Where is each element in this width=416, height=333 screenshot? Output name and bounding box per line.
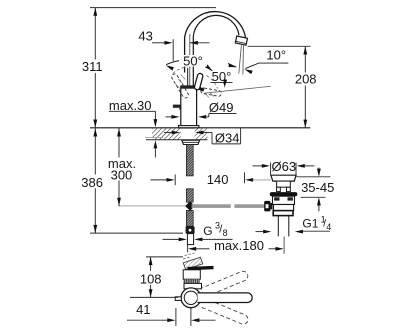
riser left edge [187,68,189,87]
drain tailpiece pipe [278,216,289,237]
swivel circle inner [184,291,197,304]
drain centerline [283,237,285,254]
rod clamp [264,201,270,212]
top extension line (spout top) [90,7,216,9]
deck top line [90,127,310,129]
50-deg arc (lever tilt) [166,60,212,70]
deck hatched section left of hole [152,128,181,139]
svg-text:Ø34: Ø34 [215,131,240,146]
311/386 vertical dimension line [94,8,96,234]
svg-text:4: 4 [326,222,331,232]
dashed swing arc right [207,76,218,89]
aerator [235,36,247,45]
G3/8 nut [186,226,195,233]
dashed lever (down-right position) [201,88,222,97]
lever-down axis line [204,86,271,93]
dashed lever (left open position) [171,73,190,99]
solid spout bar [198,293,253,303]
circle left protrusion [175,297,181,301]
threaded rod segment 3 [186,210,193,226]
deck hatched section right of hole [195,128,208,139]
dashed swivel spout up [199,270,249,298]
top-view dark band [184,279,200,283]
svg-text:G: G [203,224,212,238]
lever hub [194,86,204,90]
svg-text:300: 300 [111,167,133,182]
mounting washer [182,140,200,144]
svg-text:108: 108 [140,271,162,286]
svg-text:35-45: 35-45 [301,180,334,195]
svg-text:140: 140 [207,172,229,187]
dimension text 311 [81,60,105,74]
drain stem [277,181,291,187]
supply thread pipe [187,234,193,245]
svg-text:8: 8 [223,228,228,238]
rod node joint [185,201,195,210]
drain lower band [274,205,294,211]
left knob [173,105,181,108]
drain gasket flange [270,192,298,196]
208 dimension line [304,46,306,128]
spout outlet extension line [248,45,311,47]
threaded shank segment 2 [186,189,193,202]
threaded shank segment 1 [186,145,193,176]
10-deg arc arrow [228,63,236,67]
deck bottom line [146,139,208,141]
body top cap band [181,86,197,89]
svg-text:43: 43 [138,29,152,44]
drain plug top [271,175,296,181]
top-view body block [183,270,200,279]
svg-text:50°: 50° [212,69,232,84]
pop-up rod thick gray bar [192,204,231,208]
svg-text:208: 208 [295,72,317,87]
spout inner arc and riser right edge [193,15,239,87]
dimension text 386 [81,175,105,189]
body cylinder [181,86,197,126]
svg-text:Ø63: Ø63 [272,159,297,174]
drain stem side tabs [277,187,281,191]
svg-text:G1: G1 [302,216,318,230]
hatch marks in dashed levers [176,75,215,98]
lever (solid, up position) [194,73,204,90]
faucet centerline [189,34,191,87]
base flange [179,126,199,128]
svg-text:41: 41 [136,302,150,317]
50-deg label 1 [179,55,207,67]
386 bottom extension line [90,232,183,234]
top-view lever tip bar [188,266,214,270]
top-view lower block [184,283,202,288]
svg-text:max.180: max.180 [214,238,264,253]
drain body [273,196,295,204]
svg-text:Ø49: Ø49 [209,100,234,115]
pop-up rod thin gray line [118,205,185,207]
spout outer arc [185,12,246,73]
dashed swing arc left [173,67,188,74]
top-view lever hatched [183,257,203,269]
max.300 dimension line [118,128,120,206]
svg-text:50°: 50° [183,54,203,69]
max.300 text [107,158,138,181]
water stream 10-degree lines [239,45,242,73]
swivel circle outer [181,288,201,308]
svg-text:10°: 10° [266,48,286,63]
drain collar [273,211,293,216]
dashed swivel spout down [199,298,249,326]
svg-text:311: 311 [82,59,103,74]
43 extension line [172,39,174,61]
svg-text:386: 386 [81,175,103,190]
